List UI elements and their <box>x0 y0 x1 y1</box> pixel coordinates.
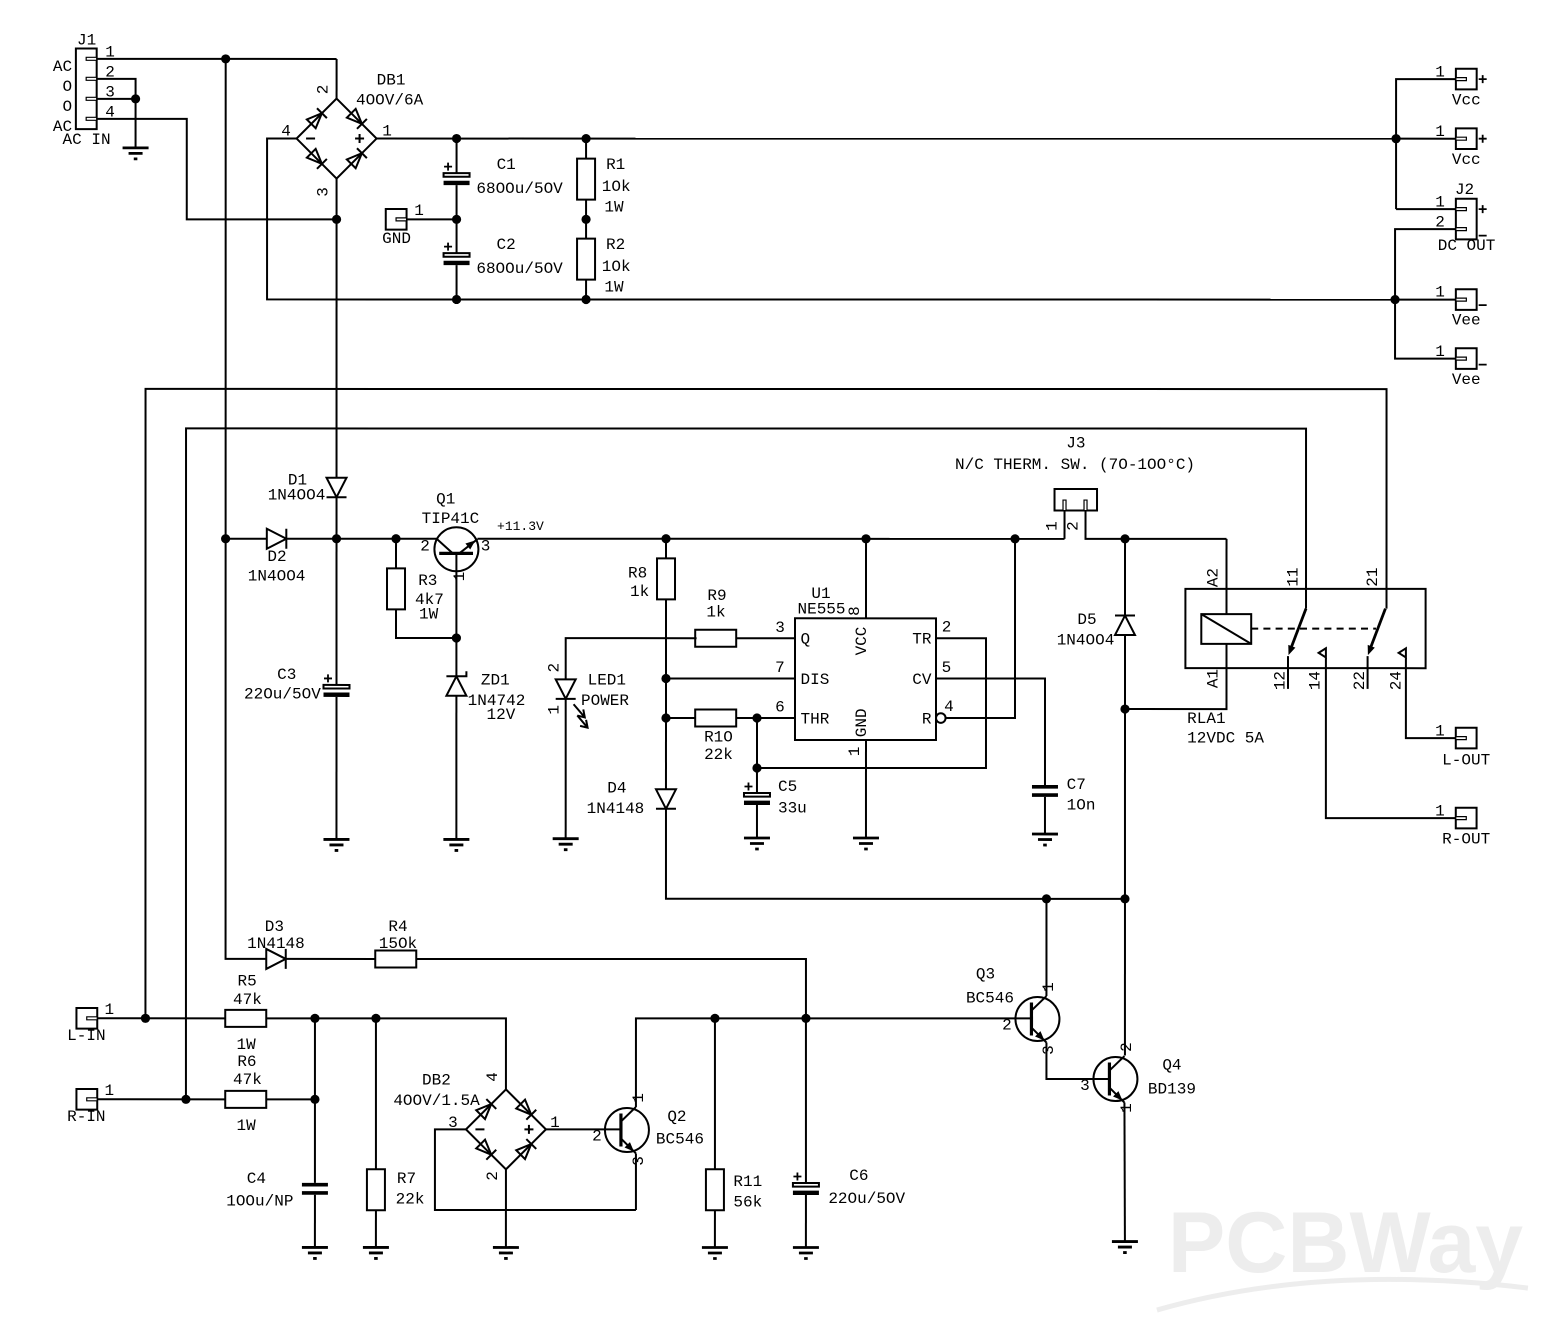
svg-text:R2: R2 <box>606 236 625 254</box>
wire R11 top lead <box>714 1018 716 1169</box>
svg-text:1: 1 <box>1435 284 1445 302</box>
wire C2 top lead <box>456 219 458 253</box>
svg-text:Q2: Q2 <box>667 1108 686 1126</box>
junction THR node <box>661 713 670 722</box>
ground at C5 <box>744 838 770 849</box>
svg-text:+11.3V: +11.3V <box>497 519 544 534</box>
resistor R3 <box>387 568 405 609</box>
connector R-IN box <box>76 1089 97 1110</box>
svg-text:7: 7 <box>775 659 785 677</box>
svg-text:DC OUT: DC OUT <box>1438 237 1496 255</box>
svg-text:1W: 1W <box>419 606 439 624</box>
svg-text:1: 1 <box>1118 1103 1136 1113</box>
svg-text:22k: 22k <box>704 746 733 764</box>
svg-text:Vee: Vee <box>1452 371 1481 389</box>
wire Q3 collector lead <box>1045 899 1047 996</box>
wire LED1 top to R9 row <box>566 638 697 679</box>
svg-text:ZD1: ZD1 <box>481 672 510 690</box>
svg-text:R6: R6 <box>237 1053 256 1071</box>
wire Vcc2 pin <box>1396 138 1456 140</box>
transistor Q1 TIP41C <box>434 527 478 571</box>
svg-text:1W: 1W <box>237 1117 257 1135</box>
transistor Q4 BD139 <box>1093 1056 1137 1103</box>
wire ZD1 top lead <box>455 638 457 676</box>
svg-text:5: 5 <box>942 659 952 677</box>
junction Q4 collector node <box>1120 894 1129 903</box>
junction mix node top <box>310 1014 319 1023</box>
wire Vee rail <box>457 298 1395 300</box>
diode D2 <box>267 529 287 549</box>
wire R7 top lead <box>375 1018 377 1169</box>
svg-text:1: 1 <box>545 705 563 715</box>
wire R-IN node to relay pin 11 <box>186 428 1306 1099</box>
svg-text:AC: AC <box>53 58 72 76</box>
junction J1 pin1 / vertical <box>221 54 230 63</box>
svg-text:1: 1 <box>1435 803 1445 821</box>
svg-text:12V: 12V <box>486 706 515 724</box>
wire J3 pin1 lead <box>1064 511 1066 539</box>
wire J1 pin4 to DB1 pin3 node <box>97 119 337 219</box>
svg-text:2: 2 <box>942 619 952 637</box>
svg-text:6: 6 <box>775 698 785 716</box>
svg-text:2: 2 <box>484 1171 502 1181</box>
diode D1 <box>327 478 347 498</box>
led LED1 POWER <box>556 679 588 727</box>
wire Q2 emitter lead <box>635 1153 637 1210</box>
connector L-OUT box <box>1456 728 1477 749</box>
svg-text:1: 1 <box>1040 982 1058 992</box>
resistor R6 <box>225 1091 266 1108</box>
capacitor C4 <box>302 1183 328 1195</box>
svg-text:C1: C1 <box>497 156 516 174</box>
svg-text:BD139: BD139 <box>1148 1081 1196 1099</box>
connector J2 box <box>1456 199 1477 240</box>
svg-text:1k: 1k <box>706 604 725 622</box>
wire DB2 pin1 to Q2 base <box>546 1128 620 1130</box>
svg-text:1: 1 <box>105 1001 115 1019</box>
svg-text:Vee: Vee <box>1452 312 1481 330</box>
wire GND connector to mid rail <box>407 218 457 220</box>
wire THR left lead <box>666 717 695 719</box>
wire U1 pin5 CV to C7 <box>936 679 1045 786</box>
resistor R8 <box>657 558 675 599</box>
wire C1 top lead <box>456 139 458 174</box>
ground at J1 <box>123 148 149 159</box>
svg-text:O: O <box>62 98 72 116</box>
svg-text:R9: R9 <box>707 587 726 605</box>
junction Vcc rail right <box>1391 134 1400 143</box>
wire Vcc1 jog <box>1396 79 1456 209</box>
svg-text:LED1: LED1 <box>588 672 626 690</box>
svg-text:1: 1 <box>451 572 469 582</box>
J3 pin1 graphic <box>1063 500 1066 511</box>
junction Q3 collector node <box>1042 894 1051 903</box>
wire C6 top lead <box>805 1018 807 1183</box>
svg-text:3: 3 <box>775 619 785 637</box>
bridge rectifier DB2 <box>466 1089 546 1169</box>
wire C3 bottom lead <box>335 697 337 840</box>
wire J1 pin1 column down to D3 row <box>226 59 266 959</box>
svg-text:L-IN: L-IN <box>67 1027 105 1045</box>
svg-text:1N4148: 1N4148 <box>247 935 305 953</box>
PCBWay swoosh <box>1157 1279 1528 1310</box>
junction R7 top <box>371 1014 380 1023</box>
svg-text:22Ou/5OV: 22Ou/5OV <box>828 1190 905 1208</box>
svg-text:R-IN: R-IN <box>67 1108 105 1126</box>
junction D2 column <box>221 534 230 543</box>
svg-text:1N4OO4: 1N4OO4 <box>248 568 306 586</box>
svg-text:33u: 33u <box>778 800 807 818</box>
wire C5 bottom lead <box>756 805 758 838</box>
wire R1 top lead <box>585 139 587 159</box>
svg-text:DB2: DB2 <box>422 1071 451 1089</box>
wire U1 pin8 VCC lead <box>865 539 867 619</box>
svg-text:Q: Q <box>801 631 811 649</box>
svg-text:22Ou/5OV: 22Ou/5OV <box>244 686 321 704</box>
wire U1 pin1 GND lead <box>865 740 867 838</box>
wire R1 bottom lead <box>585 200 587 220</box>
U1 pin4 invert bubble <box>936 713 946 723</box>
svg-text:2: 2 <box>315 85 333 95</box>
junction D5 top <box>1120 534 1129 543</box>
svg-text:14: 14 <box>1306 671 1324 690</box>
svg-text:15Ok: 15Ok <box>379 935 417 953</box>
relay pin 24 lead to L-OUT <box>1406 658 1456 738</box>
svg-text:THR: THR <box>800 711 829 729</box>
wire R9 to U1 pin3 <box>736 637 795 639</box>
resistor R4 <box>375 950 416 967</box>
svg-text:1: 1 <box>1435 194 1445 212</box>
svg-text:GND: GND <box>853 708 871 737</box>
diode D5 <box>1115 616 1135 636</box>
svg-text:2: 2 <box>1118 1042 1136 1052</box>
capacitor C7 <box>1032 785 1058 797</box>
svg-text:2: 2 <box>420 537 430 555</box>
svg-text:1N4OO4: 1N4OO4 <box>1057 632 1115 650</box>
wire DB1 pin3 lead <box>336 179 338 220</box>
svg-text:D2: D2 <box>267 548 286 566</box>
wire +11.3V rail <box>477 538 1064 540</box>
ground at Q4 <box>1112 1242 1138 1253</box>
svg-text:DB1: DB1 <box>377 71 406 89</box>
wire R4 to L-IN row <box>416 959 806 1018</box>
wire J2 pin1 <box>1396 208 1456 210</box>
wire R6 to mix node <box>266 1098 315 1100</box>
junction D5 / relay A1 <box>1120 704 1129 713</box>
svg-text:47k: 47k <box>233 991 262 1009</box>
wire DB1 pin4 to Vee rail <box>267 139 457 300</box>
svg-text:22: 22 <box>1351 671 1369 690</box>
svg-text:1On: 1On <box>1067 797 1096 815</box>
connector J1 box <box>76 49 97 130</box>
bridge rectifier DB1 <box>297 99 377 179</box>
wire C2 bottom lead <box>456 265 458 299</box>
svg-text:DIS: DIS <box>800 671 829 689</box>
junction D1 / rail <box>332 534 341 543</box>
wire R8 top lead <box>665 539 667 559</box>
wire Q4 emitter lead <box>1123 1103 1126 1242</box>
svg-text:1: 1 <box>1435 123 1445 141</box>
svg-text:A1: A1 <box>1204 669 1222 688</box>
wire D4 bottom row <box>666 809 1125 899</box>
svg-text:1W: 1W <box>604 199 624 217</box>
wire DB1 pin3 node down to D1 <box>336 219 338 478</box>
svg-text:21: 21 <box>1364 567 1382 586</box>
svg-text:C6: C6 <box>849 1167 868 1185</box>
svg-text:L-OUT: L-OUT <box>1442 752 1490 770</box>
svg-text:1: 1 <box>1435 723 1445 741</box>
junction THR / C5 <box>752 713 761 722</box>
junction J1 pins 2-3 <box>131 94 140 103</box>
junction GND mid rail at C1 <box>452 215 461 224</box>
wire relay A1 node down to Q4 collector <box>1124 709 1126 1056</box>
wire C6 bottom lead <box>805 1195 807 1248</box>
svg-text:J3: J3 <box>1066 435 1085 453</box>
zener ZD1 <box>446 671 466 696</box>
resistor R5 <box>225 1010 266 1027</box>
svg-text:R: R <box>922 711 932 729</box>
junction DB1 pin3 / J1 pin4 <box>332 215 341 224</box>
resistor R11 <box>706 1169 724 1210</box>
svg-text:R3: R3 <box>418 572 437 590</box>
svg-text:24: 24 <box>1387 671 1405 690</box>
Vcc2 plus sign <box>1479 135 1487 143</box>
wire DB1 pin2 lead <box>336 59 338 99</box>
ground at C6 <box>793 1248 819 1259</box>
svg-text:NE555: NE555 <box>797 601 845 619</box>
wire U1 pin4 R to rail <box>946 539 1015 718</box>
svg-text:4OOV/6A: 4OOV/6A <box>356 91 424 109</box>
capacitor C2 <box>444 243 470 266</box>
svg-text:1: 1 <box>105 1082 115 1100</box>
svg-text:D4: D4 <box>607 779 626 797</box>
svg-text:56k: 56k <box>733 1193 762 1211</box>
wire R3 top lead <box>395 539 397 568</box>
ground at U1 pin1 <box>853 838 879 849</box>
junction R net on rail <box>1010 534 1019 543</box>
svg-text:1W: 1W <box>237 1036 257 1054</box>
junction C6 / R4 node <box>801 1014 810 1023</box>
relay pin 12 lead <box>1287 656 1289 689</box>
wire D5 bottom lead <box>1124 635 1126 709</box>
relay RLA1 body <box>1185 589 1425 668</box>
J2 plus sign <box>1479 205 1487 213</box>
wire C1 bottom lead <box>456 185 458 219</box>
resistor R1 <box>577 159 595 200</box>
svg-text:47k: 47k <box>233 1071 262 1089</box>
wire D2 left lead <box>226 538 267 540</box>
svg-text:J1: J1 <box>77 31 96 49</box>
svg-text:TR: TR <box>912 631 932 649</box>
diode D3 <box>266 949 286 969</box>
svg-text:Vcc: Vcc <box>1452 92 1481 110</box>
wire J1 pin1 to DB1 pin2 and D2 column <box>97 58 337 60</box>
wire D5 top lead <box>1124 539 1126 616</box>
connector Vee 1 box <box>1456 289 1477 310</box>
svg-text:O: O <box>62 78 72 96</box>
svg-text:1: 1 <box>414 202 424 220</box>
capacitor C3 <box>323 674 349 697</box>
svg-text:C4: C4 <box>247 1170 266 1188</box>
wire D3 to R4 <box>286 958 376 960</box>
svg-text:1N4148: 1N4148 <box>587 800 645 818</box>
svg-text:A2: A2 <box>1205 568 1223 587</box>
svg-text:1: 1 <box>1435 64 1445 82</box>
svg-text:PCBWay: PCBWay <box>1168 1195 1523 1291</box>
wire U1 pin2 TR loop <box>757 638 986 768</box>
svg-text:CV: CV <box>912 671 932 689</box>
ground at LED1 <box>553 839 579 850</box>
svg-text:3: 3 <box>315 187 333 197</box>
relay switch 1 armature <box>1288 609 1306 655</box>
svg-text:3: 3 <box>1080 1077 1090 1095</box>
svg-text:C7: C7 <box>1067 776 1086 794</box>
svg-text:11: 11 <box>1285 567 1303 586</box>
junction R2 bottom <box>581 295 590 304</box>
wire D2 to Q1 collector <box>286 538 437 540</box>
svg-text:4: 4 <box>944 698 954 716</box>
relay switch 2 NO contact <box>1399 648 1406 657</box>
svg-text:2: 2 <box>1065 521 1083 531</box>
wire Q3 emitter to Q4 base <box>1046 1043 1109 1080</box>
svg-text:BC546: BC546 <box>656 1130 704 1148</box>
J2 minus sign <box>1479 235 1487 237</box>
svg-text:1Ok: 1Ok <box>602 258 631 276</box>
resistor R9 <box>695 630 736 647</box>
svg-text:4OOV/1.5A: 4OOV/1.5A <box>393 1092 480 1110</box>
svg-text:N/C THERM. SW. (7O-1OO°C): N/C THERM. SW. (7O-1OO°C) <box>955 456 1195 474</box>
capacitor C1 <box>444 163 470 186</box>
wire R3 bottom to Q1 base node <box>396 610 456 638</box>
wire L-IN node to relay pin 21 <box>145 389 1386 1019</box>
J3 pin2 graphic <box>1084 500 1087 511</box>
svg-text:Vcc: Vcc <box>1452 151 1481 169</box>
svg-text:3: 3 <box>630 1156 648 1166</box>
svg-text:12: 12 <box>1271 671 1289 690</box>
svg-text:C5: C5 <box>778 778 797 796</box>
wire J3 pin2 to relay coil <box>1086 511 1227 539</box>
svg-text:GND: GND <box>382 230 411 248</box>
wire J2 pin2 to Vee <box>1395 229 1456 359</box>
Vcc1 plus sign <box>1479 75 1487 83</box>
svg-text:1W: 1W <box>604 279 624 297</box>
wire LED1 bottom lead <box>565 699 567 839</box>
wire R5 to DB2 pin4 <box>266 1018 506 1089</box>
svg-text:1k: 1k <box>630 583 649 601</box>
svg-text:R1: R1 <box>606 156 625 174</box>
junction R3 top <box>391 534 400 543</box>
wire ZD1 bottom lead <box>455 696 457 840</box>
transistor Q2 BC546 <box>605 1107 649 1154</box>
connector J3 box <box>1055 489 1098 511</box>
svg-text:BC546: BC546 <box>966 990 1014 1008</box>
wire J1 pin3 <box>97 98 136 100</box>
svg-text:1N4OO4: 1N4OO4 <box>268 487 326 505</box>
wire R-IN to R6 <box>97 1098 225 1100</box>
svg-text:RLA1: RLA1 <box>1187 710 1225 728</box>
wire Vee1 pin <box>1395 299 1456 301</box>
svg-text:22k: 22k <box>396 1190 425 1208</box>
connector Vcc 1 box <box>1456 69 1477 90</box>
svg-text:D5: D5 <box>1077 611 1096 629</box>
svg-text:Q3: Q3 <box>976 966 995 984</box>
svg-text:2: 2 <box>592 1127 602 1145</box>
ground at C7 <box>1032 834 1058 845</box>
wire D1 to main rail <box>336 497 338 538</box>
svg-text:68OOu/5OV: 68OOu/5OV <box>476 260 563 278</box>
svg-text:12VDC 5A: 12VDC 5A <box>1187 730 1264 748</box>
svg-text:VCC: VCC <box>853 627 871 656</box>
ground at DB2 <box>493 1247 519 1258</box>
resistor R2 <box>577 239 595 280</box>
wire R2 top lead <box>585 219 587 238</box>
junction R11 top <box>710 1014 719 1023</box>
svg-text:1: 1 <box>1435 343 1445 361</box>
op-amp U1 NE555 body <box>795 618 936 740</box>
svg-text:R-OUT: R-OUT <box>1442 831 1490 849</box>
junction L-IN / wire A <box>141 1014 150 1023</box>
junction R8 top on rail <box>661 534 670 543</box>
ground at C4 <box>302 1247 328 1258</box>
svg-text:R4: R4 <box>388 918 407 936</box>
svg-text:1Ok: 1Ok <box>602 178 631 196</box>
svg-text:1OOu/NP: 1OOu/NP <box>226 1192 293 1210</box>
junction Q1 base / R3 / ZD1 <box>452 633 461 642</box>
svg-text:Q1: Q1 <box>436 490 455 508</box>
capacitor C6 <box>793 1173 819 1196</box>
junction R1 top <box>581 134 590 143</box>
svg-text:C2: C2 <box>497 236 516 254</box>
wire mix node column <box>314 1018 316 1183</box>
ground at ZD1 <box>443 839 469 850</box>
svg-text:R1O: R1O <box>704 728 733 746</box>
svg-text:R11: R11 <box>733 1173 762 1191</box>
svg-text:Q4: Q4 <box>1162 1056 1181 1074</box>
relay pin 14 lead to R-OUT <box>1326 658 1456 818</box>
ground at R11 <box>702 1247 728 1258</box>
wire R8 bottom to D4 <box>665 599 667 789</box>
junction Vee rail right <box>1390 295 1399 304</box>
wire R10 to U1 pin6 <box>736 717 795 719</box>
svg-text:3: 3 <box>1040 1045 1058 1055</box>
connector R-OUT box <box>1456 808 1477 829</box>
wire relay A1 lead <box>1125 644 1227 709</box>
svg-text:1: 1 <box>846 747 864 757</box>
Vee2 minus sign <box>1479 364 1487 366</box>
wire R2 bottom lead <box>585 280 587 300</box>
junction DIS node <box>661 674 670 683</box>
resistor R7 <box>367 1169 385 1210</box>
capacitor C5 <box>744 782 770 805</box>
wire C4 bottom lead <box>314 1195 316 1248</box>
junction R-IN / wire B <box>181 1095 190 1104</box>
svg-text:2: 2 <box>545 663 563 673</box>
wire C7 bottom lead <box>1044 797 1046 834</box>
connector Vee 2 box <box>1456 348 1477 369</box>
wire DB1 pin1 Vcc rail <box>377 138 1396 140</box>
connector GND box <box>386 209 407 230</box>
diode D4 <box>656 789 676 809</box>
svg-text:8: 8 <box>846 606 864 616</box>
svg-text:R8: R8 <box>628 564 647 582</box>
svg-text:D3: D3 <box>265 918 284 936</box>
ground at C3 <box>323 839 349 850</box>
wire J1 pin2 jog <box>97 79 136 99</box>
svg-text:R5: R5 <box>238 972 257 990</box>
relay switch 1 NO contact <box>1319 648 1326 657</box>
relay pin 22 lead <box>1367 656 1369 689</box>
wire DIS to U1 pin7 <box>666 677 795 679</box>
